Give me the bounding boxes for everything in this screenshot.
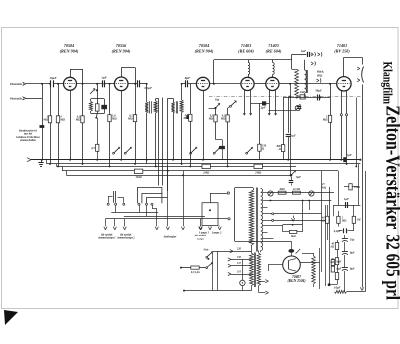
- svg-text:70556: 70556: [116, 43, 127, 48]
- svg-text:(RV 258): (RV 258): [334, 48, 350, 53]
- svg-text:1mF: 1mF: [300, 91, 305, 94]
- svg-text:10µF: 10µF: [49, 76, 57, 80]
- svg-text:(REN 904): (REN 904): [60, 48, 79, 53]
- svg-text:10µ: 10µ: [350, 239, 355, 242]
- svg-text:2µF: 2µF: [259, 106, 265, 110]
- svg-text:Steilregler: Steilregler: [164, 234, 178, 238]
- svg-text:8µF: 8µF: [185, 76, 191, 80]
- svg-text:zimmerlautspr.2: zimmerlautspr.2: [116, 237, 135, 240]
- svg-text:(REN 904): (REN 904): [195, 48, 214, 53]
- svg-text:1µF: 1µF: [101, 76, 107, 80]
- svg-text:5µF: 5µF: [296, 175, 301, 179]
- svg-text:80Ω: 80Ω: [317, 73, 323, 77]
- svg-text:(RGN 2504): (RGN 2504): [287, 279, 305, 283]
- svg-text:(RE 604): (RE 604): [266, 48, 282, 53]
- svg-text:Photozelle 2: Photozelle 2: [10, 97, 25, 100]
- svg-text:220: 220: [236, 248, 242, 251]
- svg-text:Lampe: Lampe: [196, 238, 205, 241]
- svg-text:MΩ: MΩ: [322, 119, 328, 122]
- svg-text:1M: 1M: [357, 219, 361, 222]
- svg-text:70504: 70504: [199, 43, 209, 48]
- svg-text:8µF: 8µF: [350, 252, 355, 255]
- svg-text:70504: 70504: [64, 43, 74, 48]
- svg-text:32 605 prl: 32 605 prl: [382, 235, 400, 301]
- svg-text:kΩ: kΩ: [321, 220, 324, 223]
- svg-text:1µF: 1µF: [347, 154, 352, 157]
- svg-text:Netz: Netz: [203, 249, 210, 252]
- svg-text:Lampe 1: Lampe 1: [198, 232, 209, 235]
- svg-text:MΩ: MΩ: [59, 119, 65, 122]
- svg-text:MΩ: MΩ: [127, 118, 133, 121]
- svg-text:MΩ: MΩ: [75, 119, 81, 122]
- svg-text:41,5Ω: 41,5Ω: [292, 188, 301, 191]
- svg-text:71403: 71403: [241, 43, 251, 48]
- svg-text:einzuschalten: einzuschalten: [20, 139, 36, 142]
- svg-text:240Ω: 240Ω: [135, 176, 142, 179]
- svg-text:zimmerlautspr.1: zimmerlautspr.1: [97, 237, 116, 240]
- svg-text:kΩ: kΩ: [330, 261, 333, 264]
- svg-text:MΩ: MΩ: [42, 119, 48, 122]
- svg-text:MΩ: MΩ: [111, 118, 117, 121]
- svg-text:Photozelle 1: Photozelle 1: [10, 83, 25, 86]
- svg-text:1µF: 1µF: [291, 134, 296, 137]
- svg-text:kΩ: kΩ: [331, 246, 334, 249]
- svg-text:MΩ: MΩ: [183, 117, 189, 120]
- svg-text:10µF: 10µF: [334, 286, 341, 290]
- svg-text:7kΩ: 7kΩ: [321, 186, 327, 190]
- svg-text:Lampe 2: Lampe 2: [211, 232, 222, 235]
- svg-text:Klangfilm: Klangfilm: [381, 62, 396, 105]
- svg-text:71403: 71403: [268, 43, 278, 48]
- svg-text:50µF: 50µF: [315, 89, 322, 93]
- svg-text:(RE 604): (RE 604): [238, 48, 254, 53]
- svg-text:71401: 71401: [337, 43, 347, 48]
- svg-text:(REN 904): (REN 904): [112, 48, 131, 53]
- svg-text:MΩ: MΩ: [208, 118, 214, 121]
- svg-text:MΩ: MΩ: [220, 118, 226, 121]
- svg-text:1µF: 1µF: [301, 49, 306, 53]
- svg-text:1µF: 1µF: [344, 197, 349, 201]
- svg-text:240Ω: 240Ω: [254, 172, 261, 175]
- svg-text:0,1/1,6A: 0,1/1,6A: [191, 271, 200, 274]
- svg-text:10µ: 10µ: [215, 98, 220, 101]
- svg-text:240Ω: 240Ω: [202, 172, 209, 175]
- svg-text:8µF: 8µF: [350, 268, 355, 271]
- svg-text:MΩ: MΩ: [341, 220, 346, 223]
- svg-text:Zelton-Verstärker: Zelton-Verstärker: [382, 105, 400, 229]
- svg-text:0,1µF: 0,1µF: [145, 86, 152, 90]
